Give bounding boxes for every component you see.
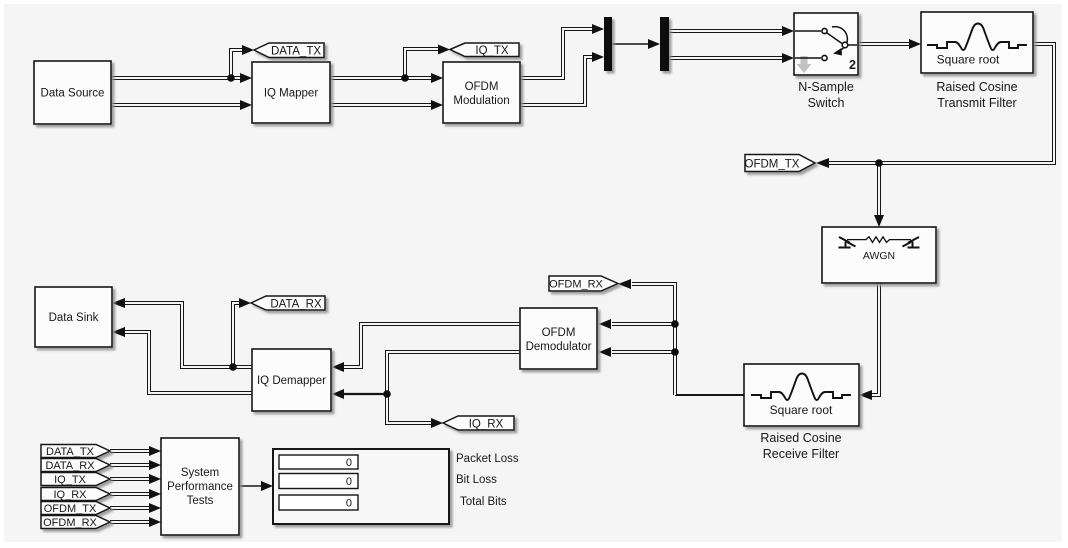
tag IQ_RX goto — [443, 416, 514, 430]
arrowhead into Display — [261, 481, 273, 491]
svg-text:OFDM_TX: OFDM_TX — [745, 158, 800, 170]
wire IQ Demapper out2 to Data Sink in2 — [125, 332, 252, 393]
svg-text:OFDM: OFDM — [465, 81, 499, 93]
node junction at OFDM_TX line — [875, 159, 883, 167]
wire Demodulator out2 down to IQ_RX tag — [387, 352, 520, 423]
arrowhead tag DATA_TX into SPT — [149, 446, 161, 456]
svg-text:Data Sink: Data Sink — [49, 312, 99, 324]
wire tag IQ_TX to SPT — [110, 477, 149, 481]
block Data Sink — [35, 287, 112, 347]
svg-text:Receive Filter: Receive Filter — [763, 447, 839, 461]
svg-text:0: 0 — [346, 476, 352, 488]
block TX Raised Cosine Filter — [921, 12, 1033, 73]
svg-text:AWGN: AWGN — [863, 250, 895, 262]
wire AWGN out to RX filter — [872, 283, 879, 395]
svg-text:N-Sample: N-Sample — [798, 80, 854, 94]
arrowhead into switch in2 — [782, 53, 794, 63]
svg-text:IQ_TX: IQ_TX — [475, 45, 509, 57]
wire mux2 out1 to switch in1 — [669, 29, 783, 33]
block Data Source — [34, 61, 111, 124]
tag from DATA_RX — [41, 459, 110, 473]
arrowhead tag OFDM_RX into SPT — [149, 517, 161, 527]
arrowhead into IQ_RX tag — [431, 418, 443, 428]
ARROWHEADS — [112, 24, 921, 527]
svg-text:IQ Mapper: IQ Mapper — [264, 88, 318, 100]
svg-text:System: System — [181, 467, 219, 479]
wire IQ Mapper out1 to OFDM Modulation in1 — [330, 76, 432, 80]
svg-text:Total Bits: Total Bits — [460, 496, 507, 508]
wire Data Source out2 to IQ Mapper in2 — [111, 103, 241, 107]
arrowhead into IQ Mapper in2 — [240, 100, 252, 110]
arrowhead tag IQ_TX into SPT — [149, 474, 161, 484]
svg-text:Demodulator: Demodulator — [526, 341, 592, 353]
arrowhead into Demodulator in2 — [599, 347, 611, 357]
tag from OFDM_TX — [41, 502, 110, 516]
wire TX filter out loop to OFDM_TX tag — [829, 44, 1054, 163]
WIRES LAYER — [110, 29, 1054, 522]
svg-text:OFDM_TX: OFDM_TX — [44, 503, 97, 515]
arrowhead into IQ_TX tag — [438, 45, 450, 55]
wire riser to OFDM Demodulator in1 — [612, 322, 675, 326]
node junction demapper out1 — [229, 363, 237, 371]
arrowhead into Data Sink in2 — [112, 327, 125, 337]
wire spur to IQ Demapper in2 single — [344, 393, 387, 395]
wire RX filter out single to riser — [675, 394, 744, 396]
svg-text:Data Source: Data Source — [41, 88, 105, 100]
svg-text:IQ_RX: IQ_RX — [53, 489, 87, 501]
tag from OFDM_RX — [41, 516, 110, 530]
block IQ Mapper — [252, 62, 330, 123]
arrowhead into TX filter — [909, 39, 921, 49]
wire OFDM Modulation out1 to mux1 in1 — [520, 29, 593, 78]
label Raised Cosine Transmit Filter — [936, 80, 1017, 110]
arrowhead into IQ Demapper in2 — [332, 389, 344, 399]
arrowhead into mux1 in1 — [592, 24, 604, 34]
node junction riser in1 — [671, 320, 679, 328]
svg-text:Tests: Tests — [187, 495, 214, 507]
display field 2 — [279, 474, 358, 489]
wire SPT to Display single — [239, 485, 262, 487]
arrowhead into DATA_RX tag — [239, 298, 251, 308]
AWGN icon left antenna — [839, 237, 856, 248]
svg-text:Performance: Performance — [167, 481, 233, 493]
svg-text:OFDM_RX: OFDM_RX — [549, 279, 603, 291]
node junction riser in2 — [671, 348, 679, 356]
mux bar 1 — [604, 17, 612, 71]
tag DATA_RX goto — [251, 296, 325, 310]
node junction demod out2 riser — [383, 390, 391, 398]
switch icon arc arrowhead — [833, 48, 842, 56]
svg-text:IQ_RX: IQ_RX — [469, 418, 504, 430]
arrowhead into OFDM_RX tag — [618, 279, 631, 289]
switch icon gray arrow — [797, 56, 812, 73]
arrowhead into Demodulator in1 — [599, 319, 611, 329]
svg-text:DATA_TX: DATA_TX — [271, 45, 321, 57]
tag IQ_TX goto — [450, 43, 519, 57]
svg-text:Switch: Switch — [808, 96, 845, 110]
svg-text:DATA_RX: DATA_RX — [270, 298, 322, 310]
block System Performance Tests — [161, 438, 239, 535]
display field 3 — [279, 495, 358, 510]
wire tag DATA_TX to SPT — [110, 449, 149, 453]
wire OFDM Modulation out2 to mux1 in2 — [520, 57, 593, 105]
svg-text:Square root: Square root — [770, 403, 833, 417]
wire Demodulator out1 to IQ Demapper in1 — [344, 324, 520, 367]
wire riser up to OFDM_RX tag — [632, 284, 675, 395]
arrowhead into AWGN top — [874, 215, 884, 227]
svg-text:Modulation: Modulation — [453, 95, 509, 107]
block AWGN — [822, 227, 936, 283]
svg-text:Packet Loss: Packet Loss — [456, 453, 519, 465]
arrowhead tag OFDM_TX into SPT — [149, 503, 161, 513]
wire branch to DATA_TX tag — [231, 50, 242, 78]
display field 1 — [279, 455, 358, 469]
block OFDM Demodulator — [520, 308, 597, 369]
AWGN icon right antenna — [903, 237, 920, 248]
tag DATA_TX goto — [254, 43, 324, 58]
wire IQ Demapper out1 to Data Sink in1 — [125, 303, 252, 367]
svg-text:Square root: Square root — [937, 53, 1000, 67]
wire tag OFDM_TX to SPT — [110, 506, 149, 510]
svg-text:IQ_TX: IQ_TX — [54, 474, 86, 486]
wire tag OFDM_RX to SPT — [110, 520, 149, 524]
tag OFDM_TX goto — [745, 155, 815, 172]
wire tag DATA_RX to SPT — [110, 463, 149, 467]
arrowhead into mux1 in2 — [592, 52, 604, 62]
block RX Raised Cosine Filter — [744, 364, 859, 426]
arrowhead tag IQ_RX into SPT — [149, 489, 161, 499]
wire Data Source out1 to IQ Mapper in1 — [111, 76, 241, 80]
arrowhead into IQ Demapper in1 — [332, 362, 344, 372]
svg-text:2: 2 — [849, 58, 856, 72]
wire IQ Mapper out2 to OFDM Modulation in2 — [330, 103, 432, 107]
wire junction down to AWGN — [877, 163, 881, 216]
label N-Sample Switch — [798, 80, 854, 110]
arrowhead into Data Sink in1 — [112, 298, 125, 308]
block N-Sample Switch — [794, 13, 858, 75]
svg-text:DATA_RX: DATA_RX — [45, 460, 95, 472]
svg-text:IQ Demapper: IQ Demapper — [257, 375, 326, 387]
svg-text:Raised Cosine: Raised Cosine — [760, 431, 841, 445]
arrowhead into OFDM_TX tag — [816, 158, 829, 168]
wire switch out to TX filter — [858, 42, 910, 46]
tag OFDM_RX goto — [549, 276, 618, 291]
arrowhead into OFDM Modulation in2 — [431, 100, 443, 110]
mux bar 2 — [660, 17, 669, 71]
switch contact circles — [822, 28, 848, 60]
wire mux1 to mux2 single — [612, 43, 649, 45]
arrowhead into switch in1 — [782, 26, 794, 36]
TAGS — [41, 43, 815, 529]
svg-text:OFDM_RX: OFDM_RX — [43, 517, 97, 529]
svg-text:DATA_TX: DATA_TX — [46, 446, 95, 458]
wire branch to IQ_TX tag — [405, 49, 438, 78]
block OFDM Modulation — [443, 62, 520, 123]
svg-text:Bit Loss: Bit Loss — [456, 474, 497, 486]
svg-text:0: 0 — [346, 457, 352, 469]
arrowhead into mux2 — [648, 39, 660, 49]
RX filter waveform — [751, 374, 851, 401]
svg-text:0: 0 — [346, 498, 352, 510]
node junction at Data Source out1 — [227, 74, 235, 82]
svg-text:Transmit Filter: Transmit Filter — [937, 96, 1016, 110]
svg-text:Raised Cosine: Raised Cosine — [936, 80, 1017, 94]
svg-text:OFDM: OFDM — [542, 327, 576, 339]
node junction at IQ Mapper out1 — [401, 74, 409, 82]
arrowhead into IQ Mapper in1 — [240, 73, 252, 83]
arrowhead into OFDM Modulation in1 — [431, 73, 443, 83]
wire mux2 out2 to switch in2 — [669, 56, 783, 60]
AWGN icon line with zigzag — [847, 237, 911, 243]
block Display — [273, 449, 449, 524]
wire branch to DATA_RX tag — [233, 303, 240, 367]
label Raised Cosine Receive Filter — [760, 431, 841, 461]
wire tag IQ_RX to SPT — [110, 492, 149, 496]
switch icon lines — [795, 27, 857, 58]
tag from DATA_TX — [41, 445, 110, 459]
tag from IQ_RX — [41, 488, 110, 502]
TX filter waveform — [927, 24, 1027, 51]
arrowhead tag DATA_RX into SPT — [149, 460, 161, 470]
tag from IQ_TX — [41, 473, 110, 487]
block IQ Demapper — [252, 349, 331, 411]
arrowhead into DATA_TX tag — [242, 45, 254, 55]
arrowhead into RX filter right — [859, 390, 872, 400]
wire riser to OFDM Demodulator in2 — [612, 350, 675, 354]
